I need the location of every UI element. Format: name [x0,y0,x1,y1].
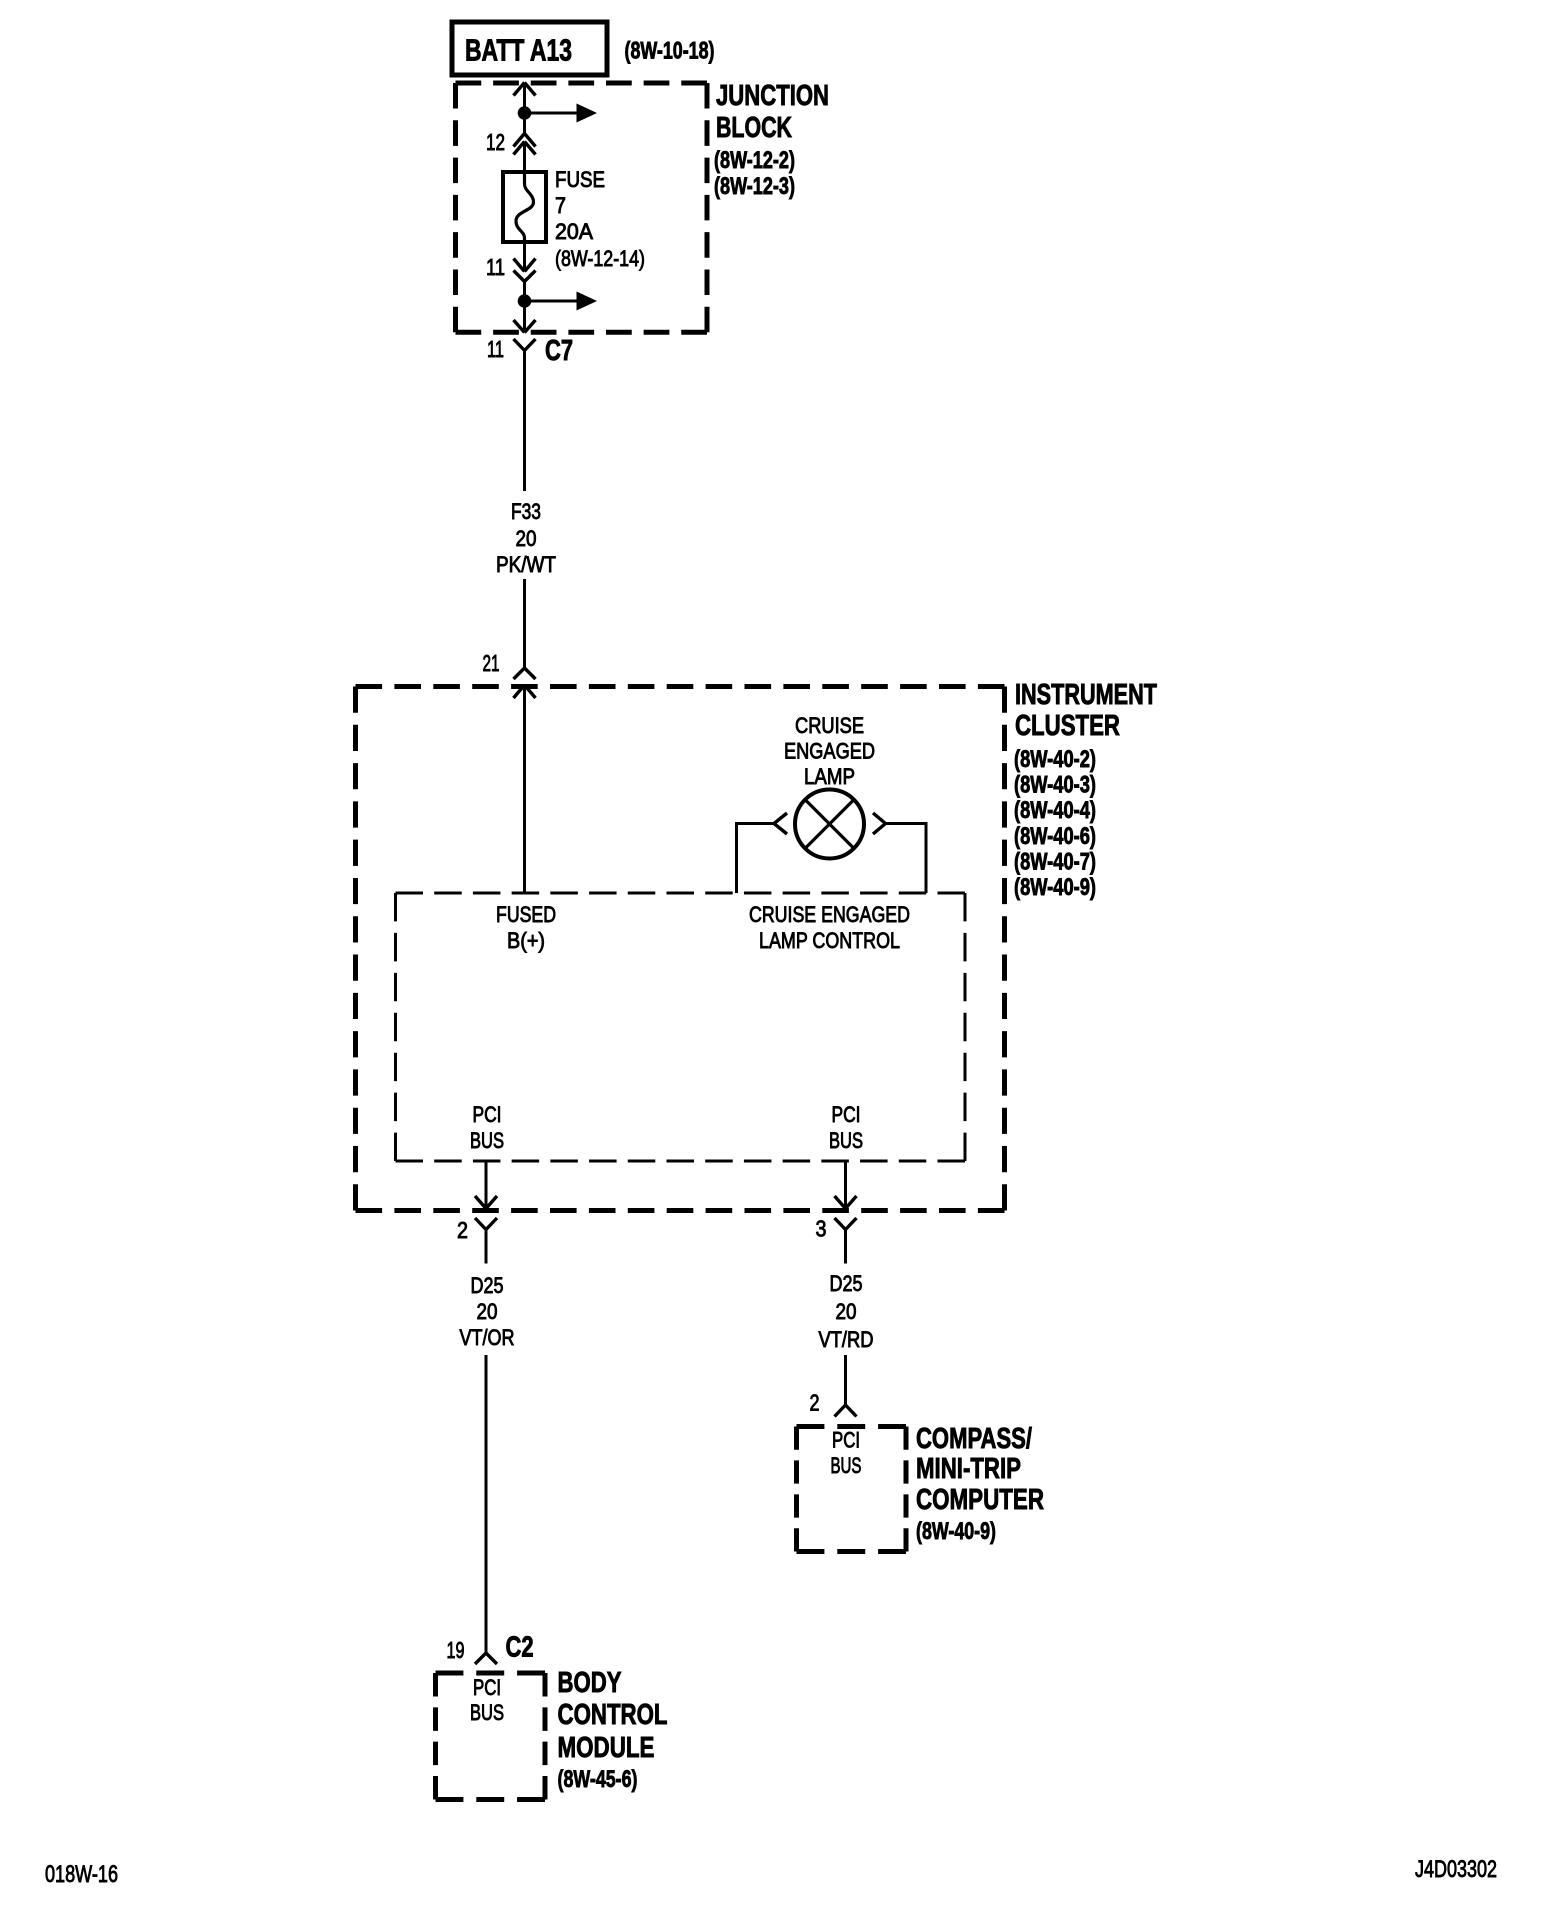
wire D25 to compass computer [844,1355,847,1405]
svg-text:BUS: BUS [470,1128,504,1153]
svg-text:F33: F33 [511,499,541,524]
svg-text:CLUSTER: CLUSTER [1015,710,1120,742]
svg-text:11: 11 [486,254,505,280]
svg-text:20A: 20A [555,219,593,244]
svg-text:(8W-40-7): (8W-40-7) [1014,848,1096,875]
svg-text:20: 20 [836,1299,857,1324]
svg-text:(8W-40-4): (8W-40-4) [1014,797,1096,824]
svg-text:BLOCK: BLOCK [716,112,792,144]
wire lamp right leg [886,824,926,894]
svg-text:(8W-40-9): (8W-40-9) [916,1518,996,1545]
svg-text:LAMP CONTROL: LAMP CONTROL [759,928,900,953]
svg-text:BODY: BODY [558,1667,622,1699]
svg-text:11: 11 [487,336,504,362]
svg-text:20: 20 [477,1299,498,1324]
svg-text:20: 20 [516,526,537,551]
svg-text:(8W-45-6): (8W-45-6) [558,1766,638,1793]
svg-text:PCI: PCI [473,1102,502,1127]
svg-text:JUNCTION: JUNCTION [716,80,829,112]
svg-text:PCI: PCI [832,1102,861,1127]
lamp left terminal chevron [774,813,787,834]
male connector arrow into instrument cluster [514,685,536,893]
female connector pin 3 [835,1218,857,1264]
male connector arrow at cluster bottom left [475,1196,497,1209]
male connector arrow at junction block bottom [514,320,536,333]
power feed box BATT A13 [452,22,607,75]
wire PCI bus right exit [844,1161,847,1209]
svg-text:2: 2 [810,1390,820,1416]
svg-text:VT/RD: VT/RD [819,1327,874,1352]
svg-text:C7: C7 [545,335,573,367]
svg-text:12: 12 [486,129,505,155]
wire F33 lower segment [523,579,526,668]
instrument cluster dashed outline [356,687,1005,1211]
female connector C7 [514,339,536,491]
svg-text:B(+): B(+) [507,928,545,953]
female connector pin 2 compass [835,1405,857,1417]
svg-text:(8W-10-18): (8W-10-18) [625,38,715,65]
splice junction dot lower [518,294,532,308]
instrument cluster internal dashed box [396,893,966,1161]
female connector pin 19 C2 [475,1653,497,1664]
svg-text:CRUISE ENGAGED: CRUISE ENGAGED [749,902,910,927]
male connector pin 11 [514,259,536,272]
junction block dashed outline [456,83,708,332]
svg-text:(8W-40-3): (8W-40-3) [1014,772,1096,799]
male connector arrow at cluster bottom right [835,1196,857,1209]
compass mini-trip computer dashed box [797,1427,907,1552]
svg-text:3: 3 [816,1216,827,1242]
svg-text:BATT A13: BATT A13 [465,33,572,68]
svg-text:BUS: BUS [831,1453,862,1478]
svg-text:7: 7 [555,193,566,218]
svg-text:21: 21 [483,650,500,676]
svg-text:PCI: PCI [473,1675,501,1700]
branch wire arrow right (upper) [527,104,597,123]
male connector arrow into junction block top [514,83,536,114]
female connector pin 2 [475,1218,497,1264]
svg-text:2: 2 [457,1217,468,1243]
female connector pin 21 [514,668,536,679]
wire [523,242,526,272]
wire [523,113,526,134]
lamp right terminal chevron [873,813,886,834]
svg-text:018W-16: 018W-16 [45,1861,118,1888]
svg-text:D25: D25 [471,1273,504,1298]
svg-text:COMPASS/: COMPASS/ [916,1423,1032,1455]
wire PCI bus left exit [485,1161,488,1209]
svg-text:(8W-12-2): (8W-12-2) [714,147,795,174]
svg-text:FUSE: FUSE [555,167,605,192]
svg-text:PK/WT: PK/WT [496,552,556,577]
svg-text:COMPUTER: COMPUTER [916,1484,1044,1516]
splice junction dot [518,106,532,120]
svg-text:INSTRUMENT: INSTRUMENT [1015,679,1157,711]
svg-text:CRUISE: CRUISE [795,713,864,738]
svg-text:19: 19 [447,1637,465,1663]
svg-text:CONTROL: CONTROL [558,1699,668,1731]
svg-text:LAMP: LAMP [804,764,855,789]
svg-text:(8W-12-3): (8W-12-3) [714,173,795,200]
svg-text:VT/OR: VT/OR [460,1325,515,1350]
wire lamp left leg [737,824,775,894]
svg-text:J4D03302: J4D03302 [1415,1856,1497,1883]
svg-text:(8W-40-9): (8W-40-9) [1014,874,1096,901]
wire [523,301,526,333]
female connector pin 12 [514,134,536,147]
female connector pin 11 [514,271,536,302]
svg-text:PCI: PCI [832,1428,860,1453]
svg-text:MODULE: MODULE [558,1732,655,1764]
fuse 7 20A [503,172,546,242]
cruise engaged lamp symbol [795,790,864,859]
svg-text:ENGAGED: ENGAGED [784,739,875,764]
svg-text:(8W-12-14): (8W-12-14) [555,246,645,271]
svg-text:FUSED: FUSED [496,902,556,927]
svg-text:MINI-TRIP: MINI-TRIP [916,1453,1021,1485]
branch wire arrow right (lower) [527,292,597,311]
svg-text:BUS: BUS [829,1128,863,1153]
svg-text:D25: D25 [830,1271,863,1296]
body control module dashed box [436,1673,546,1800]
male connector pin 12 [514,142,536,174]
svg-text:C2: C2 [506,1632,534,1664]
svg-text:(8W-40-6): (8W-40-6) [1014,823,1096,850]
svg-text:BUS: BUS [470,1700,504,1725]
wire D25 to body control module [485,1355,488,1653]
svg-text:(8W-40-2): (8W-40-2) [1014,746,1096,773]
